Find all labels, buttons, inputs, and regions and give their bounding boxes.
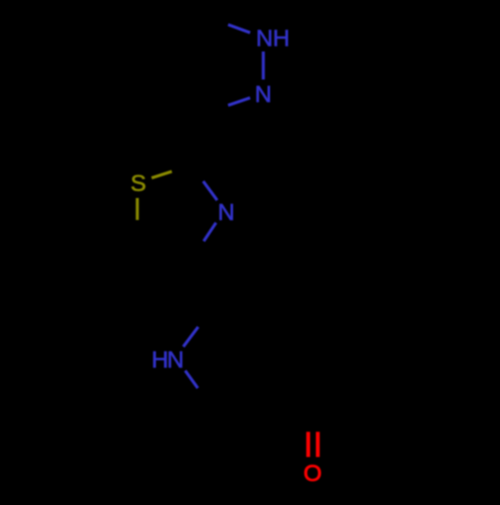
bond C2'-N1' (pyrrole, half near N1')	[183, 327, 198, 347]
bond S1-C2 (thiazole, half near S1)	[152, 171, 172, 178]
svg-text:S: S	[131, 170, 147, 196]
double bond C=O line 1 (half near O)	[306, 432, 310, 457]
svg-text:N: N	[167, 346, 184, 372]
bond S1-C5 (thiazole, half near S1)	[136, 198, 139, 220]
bond N1'-C5' (pyrrole, half near N1')	[185, 371, 198, 389]
bond N1-N2 (pyrazole)	[262, 52, 265, 80]
svg-text:N: N	[256, 25, 273, 51]
bond C2-N3 (thiazole, half near N3)	[203, 181, 217, 200]
svg-text:N: N	[255, 81, 272, 107]
bond N2-C3 (pyrazole, half near N2)	[228, 98, 250, 106]
bond N3-C4 (thiazole, half near N3)	[204, 223, 216, 242]
svg-text:N: N	[218, 199, 235, 225]
svg-text:O: O	[304, 460, 322, 486]
bond C5-N1 (pyrazole, half near N1)	[228, 25, 250, 33]
svg-text:H: H	[273, 25, 290, 51]
svg-text:H: H	[152, 346, 169, 372]
double bond C=O line 2 (half near O)	[316, 432, 320, 457]
